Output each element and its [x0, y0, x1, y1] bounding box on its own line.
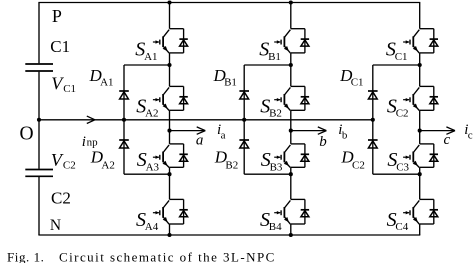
svg-text:Fig. 1.: Fig. 1.	[7, 249, 44, 263]
svg-text:O: O	[20, 123, 34, 144]
svg-text:B2: B2	[269, 108, 282, 120]
svg-text:C2: C2	[352, 159, 365, 171]
svg-text:B4: B4	[269, 221, 282, 233]
svg-text:a: a	[221, 129, 226, 141]
svg-text:C2: C2	[63, 160, 76, 172]
svg-text:B3: B3	[270, 161, 283, 173]
svg-text:C1: C1	[63, 83, 76, 95]
svg-text:i: i	[82, 134, 86, 150]
svg-text:A4: A4	[145, 221, 159, 233]
svg-text:C3: C3	[396, 161, 409, 173]
svg-text:C2: C2	[396, 108, 409, 120]
svg-text:C2: C2	[51, 188, 71, 207]
svg-text:np: np	[87, 137, 99, 149]
svg-text:A2: A2	[101, 159, 114, 171]
svg-text:b: b	[342, 129, 348, 141]
svg-text:C1: C1	[50, 37, 70, 56]
svg-text:B1: B1	[268, 51, 281, 63]
svg-text:A3: A3	[146, 161, 160, 173]
svg-text:B2: B2	[225, 159, 238, 171]
svg-text:a: a	[196, 132, 204, 148]
svg-text:A2: A2	[145, 108, 158, 120]
svg-text:A1: A1	[144, 51, 157, 63]
svg-text:c: c	[468, 129, 473, 141]
svg-text:B1: B1	[224, 76, 237, 88]
svg-text:N: N	[50, 217, 61, 234]
svg-text:C4: C4	[395, 221, 408, 233]
svg-text:b: b	[319, 134, 327, 150]
svg-text:Circuit schematic of the 3L-NP: Circuit schematic of the 3L-NPC	[59, 249, 276, 263]
svg-text:C1: C1	[351, 76, 364, 88]
svg-text:C1: C1	[395, 51, 408, 63]
svg-text:c: c	[444, 132, 451, 148]
svg-text:P: P	[52, 6, 62, 26]
svg-text:A1: A1	[100, 76, 113, 88]
